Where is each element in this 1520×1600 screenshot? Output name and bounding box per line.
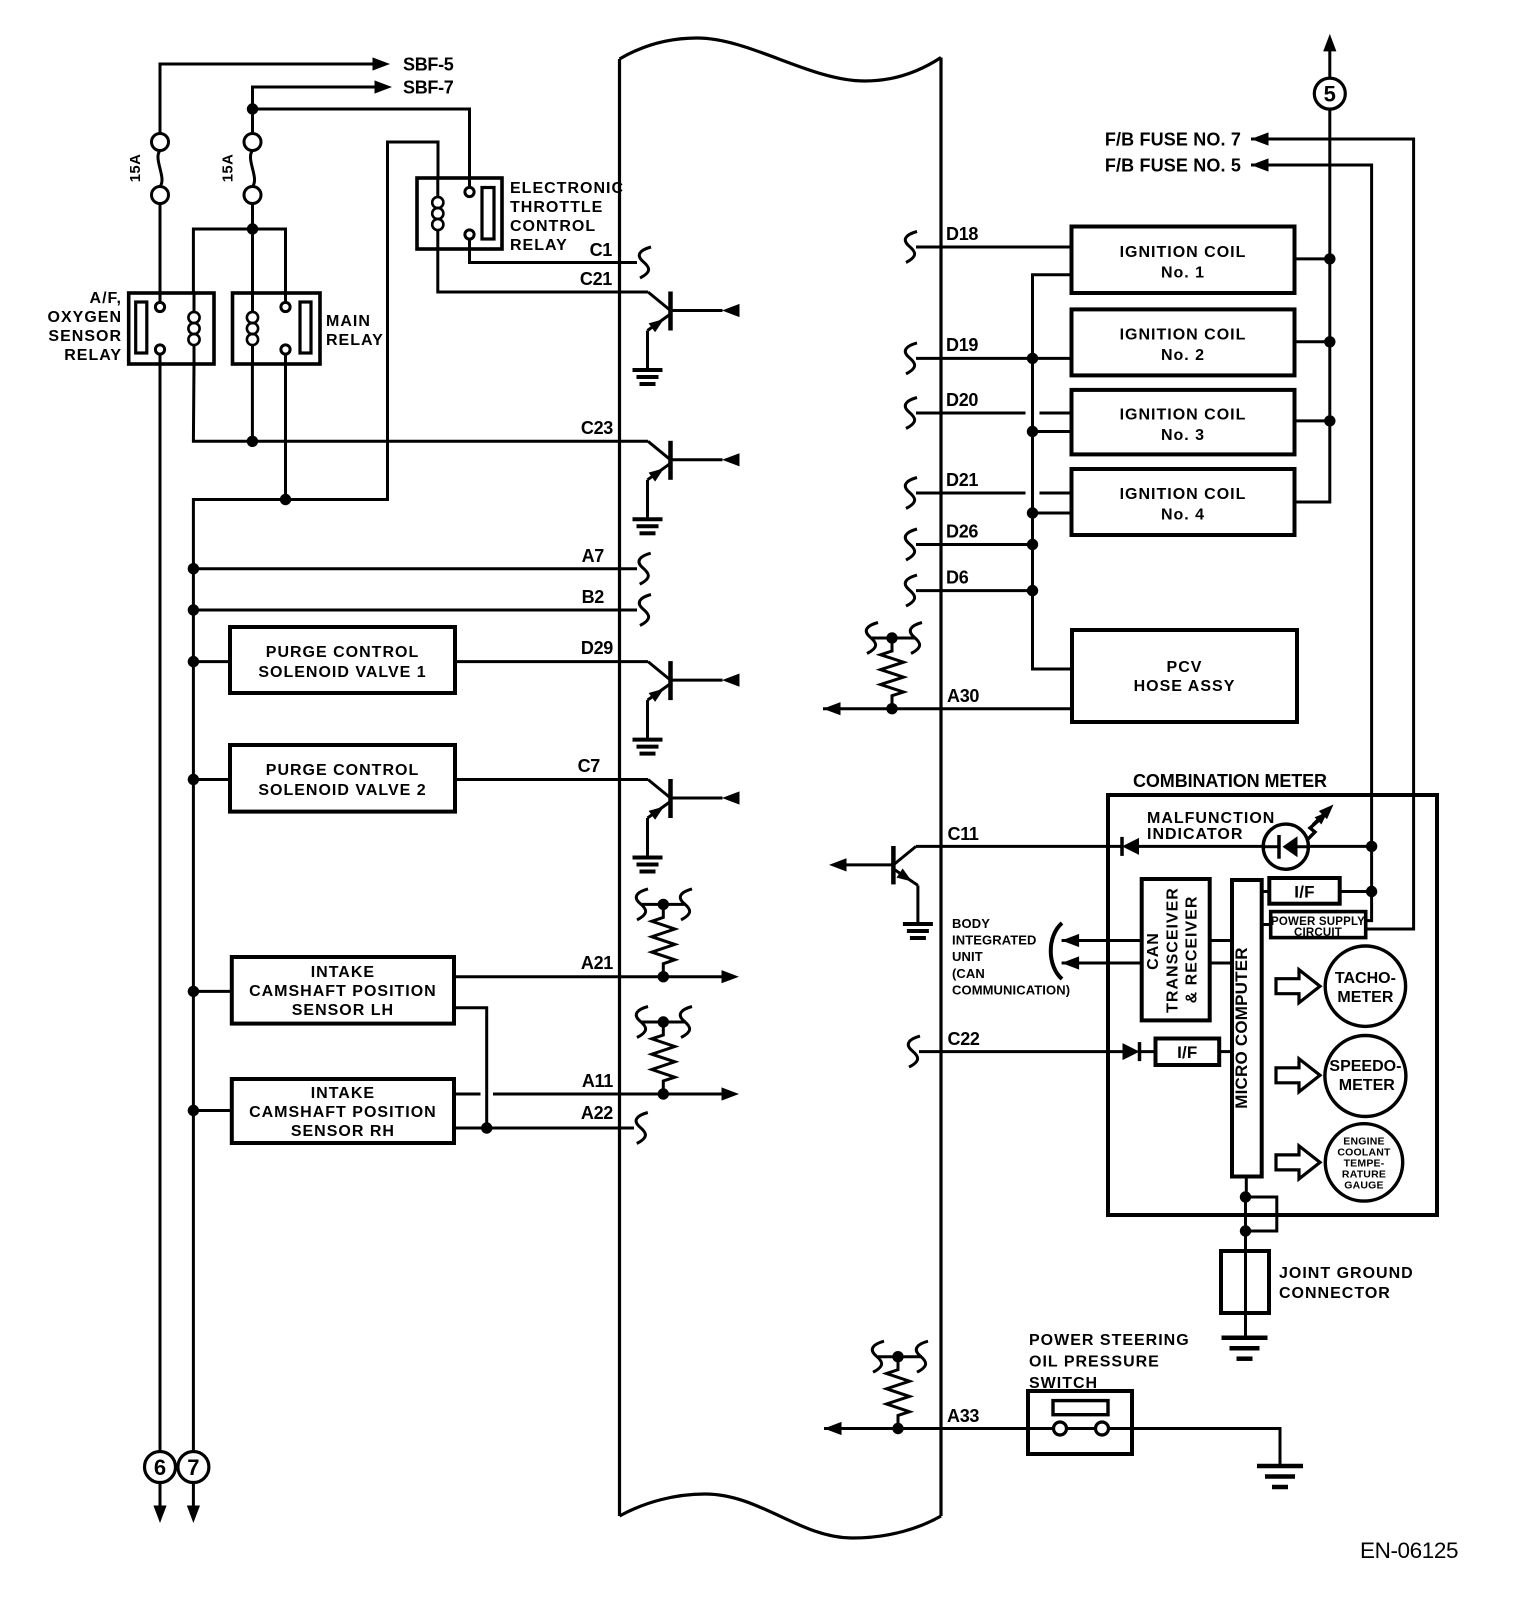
svg-text:THROTTLE: THROTTLE bbox=[510, 199, 603, 216]
hollow arrow to speedometer bbox=[1276, 1059, 1320, 1092]
squiggle R1 left bbox=[636, 889, 648, 920]
svg-text:PCV: PCV bbox=[1167, 659, 1203, 676]
wire R1 top link bbox=[642, 903, 686, 906]
label D19 bbox=[946, 335, 978, 355]
label ignition coil no.4 bbox=[1120, 486, 1247, 524]
svg-text:INTEGRATED: INTEGRATED bbox=[952, 933, 1037, 948]
wire micro to I/F upper bbox=[1262, 890, 1270, 893]
svg-text:C22: C22 bbox=[948, 1029, 980, 1049]
wire C21 bbox=[438, 249, 648, 292]
svg-text:INTAKE: INTAKE bbox=[311, 1085, 375, 1102]
svg-text:5: 5 bbox=[1324, 82, 1336, 107]
svg-text:C1: C1 bbox=[590, 240, 613, 260]
wire relay coil bus bbox=[193, 229, 285, 303]
label A33 bbox=[947, 1406, 979, 1426]
svg-text:IGNITION COIL: IGNITION COIL bbox=[1120, 407, 1247, 424]
wire C1 bbox=[470, 239, 638, 262]
squiggle D20 bbox=[905, 398, 917, 429]
wire CAN low bbox=[1062, 962, 1142, 965]
label D29 bbox=[581, 638, 613, 658]
box purge control solenoid valve 1 bbox=[230, 627, 455, 693]
squiggle D6 bbox=[905, 575, 917, 606]
circled connector 5 bbox=[1314, 78, 1345, 109]
box purge control solenoid valve 2 bbox=[230, 745, 455, 812]
svg-text:No. 4: No. 4 bbox=[1161, 507, 1205, 524]
wire D20 bbox=[916, 412, 1072, 415]
node D26 bus junction bbox=[1027, 539, 1038, 550]
wire A22 bbox=[454, 1127, 634, 1130]
svg-text:CAMSHAFT POSITION: CAMSHAFT POSITION bbox=[249, 1104, 437, 1121]
svg-text:INDICATOR: INDICATOR bbox=[1147, 826, 1243, 843]
box I/F lower bbox=[1156, 1039, 1220, 1066]
box ignition coil no.3 bbox=[1072, 390, 1295, 455]
contact bar K3 bbox=[482, 188, 494, 240]
label MAIN RELAY bbox=[326, 313, 384, 349]
label A30 bbox=[947, 686, 979, 706]
squiggle A22 bbox=[636, 1113, 648, 1144]
wire C11 bbox=[916, 845, 1263, 848]
wire coil4 bus feed bbox=[1033, 512, 1072, 515]
wire D6 bbox=[916, 589, 1033, 592]
svg-text:A11: A11 bbox=[582, 1071, 613, 1091]
svg-text:POWER STEERING: POWER STEERING bbox=[1029, 1332, 1190, 1349]
node relay coil junction bbox=[247, 223, 258, 234]
svg-text:B2: B2 bbox=[582, 587, 605, 607]
svg-text:RELAY: RELAY bbox=[64, 347, 122, 364]
svg-text:A/F,: A/F, bbox=[90, 290, 122, 307]
relay K2 main relay box bbox=[233, 293, 321, 364]
svg-text:I/F: I/F bbox=[1177, 1043, 1197, 1062]
wire K2 pin stubs bbox=[284, 293, 287, 364]
svg-text:TACHO-: TACHO- bbox=[1335, 970, 1396, 987]
node R3 top bbox=[886, 632, 897, 643]
arrow A30 left bbox=[823, 702, 841, 715]
box power steering oil pressure switch bbox=[1028, 1391, 1132, 1454]
svg-text:CIRCUIT: CIRCUIT bbox=[1294, 927, 1342, 939]
arrow to F/B fuse no.5 bbox=[1251, 158, 1269, 171]
svg-text:C23: C23 bbox=[581, 418, 613, 438]
svg-text:A21: A21 bbox=[581, 953, 613, 973]
label A22 bbox=[581, 1103, 613, 1123]
svg-text:UNIT: UNIT bbox=[952, 949, 983, 964]
node I/F supply junction bbox=[1366, 886, 1377, 897]
squiggle C1 bbox=[639, 247, 651, 278]
svg-text:D6: D6 bbox=[946, 568, 969, 588]
label 15A fuse F2 bbox=[220, 154, 237, 182]
circled connector 7 bbox=[178, 1452, 209, 1483]
ground joint ground connector bbox=[1222, 1338, 1268, 1359]
arrow to SBF-5 bbox=[373, 57, 391, 70]
label body integrated unit bbox=[952, 916, 1070, 997]
svg-text:COMMUNICATION): COMMUNICATION) bbox=[952, 982, 1070, 997]
wire D18 bbox=[916, 246, 1072, 249]
label C23 bbox=[581, 418, 613, 438]
transistor Q5 (C11) bbox=[829, 846, 933, 938]
svg-text:OXYGEN: OXYGEN bbox=[48, 309, 122, 326]
wire I/F upper to supply bbox=[1340, 890, 1372, 893]
svg-text:7: 7 bbox=[187, 1455, 199, 1480]
svg-text:IGNITION COIL: IGNITION COIL bbox=[1120, 486, 1247, 503]
gauge engine coolant temperature bbox=[1325, 1124, 1402, 1201]
wire A11 bbox=[454, 1093, 727, 1096]
squiggle R2 left bbox=[636, 1007, 648, 1038]
node camshaft RH junction bbox=[188, 1105, 199, 1116]
node camshaft LH junction bbox=[188, 986, 199, 997]
node LED supply junction bbox=[1366, 841, 1377, 852]
node coil2 output bbox=[1324, 336, 1335, 347]
hollow arrow to tachometer bbox=[1276, 970, 1320, 1003]
wire C22 bbox=[919, 1050, 1156, 1053]
label D6 bbox=[946, 568, 969, 588]
wire D29 bbox=[455, 660, 648, 663]
node A22 junction bbox=[481, 1122, 492, 1133]
label ignition coil no.1 bbox=[1120, 244, 1247, 282]
squiggle D21 bbox=[905, 478, 917, 509]
svg-text:F/B FUSE NO. 7: F/B FUSE NO. 7 bbox=[1105, 130, 1241, 150]
arrow CAN low bbox=[1062, 956, 1080, 969]
label electronic throttle control relay bbox=[510, 180, 624, 254]
squiggle D18 bbox=[905, 232, 917, 263]
wire to ETC relay contact bbox=[253, 109, 470, 188]
relay K1 A/F oxygen sensor relay box bbox=[129, 293, 214, 364]
resistor R3 (A30) bbox=[881, 638, 904, 709]
node C23 main coil junction bbox=[247, 436, 258, 447]
label ignition coil no.3 bbox=[1120, 407, 1247, 445]
hollow arrow to coolant gauge bbox=[1276, 1146, 1320, 1179]
squiggle D26 bbox=[905, 529, 917, 560]
svg-text:COMBINATION METER: COMBINATION METER bbox=[1133, 771, 1327, 791]
wire CAN to micro lower bbox=[1210, 962, 1232, 965]
svg-text:(CAN: (CAN bbox=[952, 966, 985, 981]
node R2 top bbox=[658, 1016, 669, 1027]
wire coil2 output bbox=[1295, 340, 1330, 343]
wire to purge valve 1 bbox=[193, 660, 230, 663]
wire switched power to bus and ETC coil bbox=[193, 142, 438, 1452]
label F/B FUSE NO. 7 bbox=[1105, 130, 1241, 150]
box ignition coil no.2 bbox=[1072, 309, 1295, 375]
wire to camshaft sensor LH bbox=[193, 990, 231, 993]
box CAN transceiver & receiver bbox=[1142, 879, 1210, 1020]
svg-text:SENSOR RH: SENSOR RH bbox=[291, 1123, 395, 1140]
label F/B FUSE NO. 5 bbox=[1105, 156, 1241, 176]
wire micro to power supply circuit bbox=[1262, 923, 1271, 926]
svg-text:C7: C7 bbox=[578, 756, 601, 776]
svg-text:CAN: CAN bbox=[1145, 932, 1162, 970]
label C21 bbox=[580, 269, 612, 289]
label joint ground connector bbox=[1279, 1265, 1414, 1302]
label PCV hose assy bbox=[1134, 659, 1236, 695]
wire K3 coil stubs bbox=[436, 178, 439, 249]
node R4 bottom bbox=[892, 1423, 903, 1434]
pin K3 contact top bbox=[465, 187, 474, 196]
svg-text:PURGE CONTROL: PURGE CONTROL bbox=[266, 644, 419, 661]
relay K3 electronic throttle control relay box bbox=[417, 178, 502, 249]
body integrated unit paren bbox=[1051, 923, 1062, 979]
label EN-06125 bbox=[1360, 1538, 1458, 1563]
wire K2 coil stubs bbox=[251, 293, 254, 364]
wire to camshaft sensor RH bbox=[193, 1109, 231, 1112]
svg-text:D18: D18 bbox=[946, 224, 978, 244]
transistor Q4 (C7) bbox=[633, 779, 740, 872]
svg-text:SPEEDO-: SPEEDO- bbox=[1329, 1058, 1401, 1075]
node meter ground upper bbox=[1240, 1191, 1251, 1202]
svg-text:RELAY: RELAY bbox=[510, 237, 568, 254]
svg-text:A30: A30 bbox=[947, 686, 979, 706]
wire C7 bbox=[455, 778, 648, 781]
svg-text:MICRO COMPUTER: MICRO COMPUTER bbox=[1232, 947, 1251, 1108]
wire coil1 output bbox=[1295, 257, 1330, 260]
resistor R1 (A21 pull-up) bbox=[652, 904, 675, 976]
wire coil3 output bbox=[1295, 419, 1330, 422]
box intake camshaft position sensor LH bbox=[232, 957, 454, 1024]
svg-text:SOLENOID VALVE 1: SOLENOID VALVE 1 bbox=[258, 664, 426, 681]
arrow A21 bbox=[722, 970, 740, 983]
svg-text:D19: D19 bbox=[946, 335, 978, 355]
wire coil3 bus feed bbox=[1033, 430, 1072, 433]
svg-text:RELAY: RELAY bbox=[326, 332, 384, 349]
gauge speedometer bbox=[1325, 1036, 1406, 1117]
svg-text:No. 2: No. 2 bbox=[1161, 347, 1205, 364]
svg-text:SBF-7: SBF-7 bbox=[403, 78, 454, 98]
fuse F1 15A bbox=[152, 134, 169, 204]
arrow A33 left bbox=[824, 1422, 842, 1435]
coil K1 bbox=[188, 312, 199, 345]
gauge tachometer bbox=[1325, 946, 1405, 1026]
wire connector 5 top bbox=[1328, 47, 1331, 78]
label D26 bbox=[946, 522, 978, 542]
wire A/F relay output to connector 6 bbox=[159, 354, 162, 1452]
circled connector 6 bbox=[145, 1452, 176, 1483]
wire D19 bbox=[916, 357, 1072, 360]
squiggle B2 bbox=[639, 595, 651, 626]
label A/F oxygen sensor relay bbox=[48, 290, 122, 364]
pin power steering switch right bbox=[1096, 1422, 1109, 1435]
label C1 bbox=[590, 240, 613, 260]
arrow connector 5 up bbox=[1323, 34, 1336, 52]
squiggle A7 bbox=[639, 553, 651, 584]
contact bar power steering switch bbox=[1053, 1401, 1108, 1415]
wire CAN to micro upper bbox=[1210, 939, 1232, 942]
node D19 bus junction bbox=[1027, 353, 1038, 364]
node R1 top bbox=[658, 899, 669, 910]
svg-text:SENSOR: SENSOR bbox=[48, 328, 122, 345]
pin K2 contact bottom bbox=[281, 345, 290, 354]
diode D3 (C11 meter input) bbox=[1122, 837, 1139, 856]
svg-text:No. 3: No. 3 bbox=[1161, 427, 1205, 444]
wire K1 pin stubs bbox=[159, 293, 162, 364]
svg-text:No. 1: No. 1 bbox=[1161, 265, 1205, 282]
svg-text:A22: A22 bbox=[581, 1103, 613, 1123]
wire meter ground down bbox=[1244, 1197, 1247, 1251]
squiggle R3 left bbox=[866, 623, 878, 654]
label B2 bbox=[582, 587, 605, 607]
wire camshaft LH to A22 bbox=[454, 1008, 487, 1128]
node A7 junction bbox=[188, 563, 199, 574]
svg-text:C21: C21 bbox=[580, 269, 612, 289]
svg-text:EN-06125: EN-06125 bbox=[1360, 1538, 1458, 1563]
coil K2 bbox=[247, 312, 258, 345]
wire C23 bbox=[193, 364, 648, 441]
pin K2 contact top bbox=[281, 302, 290, 311]
box ignition coil no.1 bbox=[1072, 227, 1295, 294]
label 15A fuse F1 bbox=[127, 154, 144, 182]
box ignition coil no.4 bbox=[1072, 469, 1295, 535]
wire F/B fuse no.7 bbox=[1251, 139, 1414, 929]
squiggle R1 right bbox=[680, 889, 692, 920]
squiggle R2 right bbox=[680, 1007, 692, 1038]
wire K3 pin stubs bbox=[468, 178, 471, 249]
svg-text:HOSE ASSY: HOSE ASSY bbox=[1134, 678, 1236, 695]
svg-text:D29: D29 bbox=[581, 638, 613, 658]
wire micro computer ground bbox=[1245, 1177, 1248, 1192]
wire B2 bbox=[193, 609, 637, 612]
wire connector 6 arrow bbox=[159, 1483, 162, 1509]
svg-text:D21: D21 bbox=[946, 470, 978, 490]
svg-text:SBF-5: SBF-5 bbox=[403, 55, 454, 75]
box power supply circuit bbox=[1271, 912, 1366, 938]
svg-text:D20: D20 bbox=[946, 390, 978, 410]
ECM band outline bbox=[620, 38, 942, 1538]
node coil3 bus junction bbox=[1027, 426, 1038, 437]
label purge control solenoid valve 2 bbox=[258, 762, 426, 799]
wire ignition supply bus bbox=[1295, 109, 1330, 502]
wire meter ground loop bbox=[1246, 1197, 1277, 1231]
node R3 bottom bbox=[886, 703, 897, 714]
label I/F upper bbox=[1294, 883, 1314, 902]
label SBF-7 bbox=[403, 78, 454, 98]
label power supply circuit bbox=[1271, 916, 1365, 939]
label CAN transceiver & receiver bbox=[1145, 887, 1201, 1013]
svg-text:6: 6 bbox=[154, 1455, 166, 1480]
box combination meter bbox=[1108, 795, 1437, 1215]
arrow CAN high bbox=[1062, 934, 1080, 947]
svg-text:A7: A7 bbox=[582, 546, 605, 566]
arrow to F/B fuse no.7 bbox=[1251, 132, 1269, 145]
node coil1 output bbox=[1324, 253, 1335, 264]
svg-text:I/F: I/F bbox=[1294, 883, 1314, 902]
svg-text:A33: A33 bbox=[947, 1406, 979, 1426]
svg-text:OIL PRESSURE: OIL PRESSURE bbox=[1029, 1354, 1160, 1371]
svg-text:15A: 15A bbox=[127, 154, 144, 182]
squiggle R4 right bbox=[916, 1341, 928, 1372]
transistor Q3 (D29) bbox=[633, 661, 740, 754]
svg-text:F/B FUSE NO. 5: F/B FUSE NO. 5 bbox=[1105, 156, 1241, 176]
wire A33 bbox=[824, 1429, 1280, 1466]
pin power steering switch left bbox=[1054, 1422, 1067, 1435]
label A21 bbox=[581, 953, 613, 973]
squiggle D19 bbox=[905, 343, 917, 374]
label D18 bbox=[946, 224, 978, 244]
label C7 bbox=[578, 756, 601, 776]
node R2 bottom bbox=[658, 1088, 669, 1099]
arrow to SBF-7 bbox=[375, 80, 393, 93]
transistor Q2 (C23) bbox=[633, 441, 740, 534]
node B2 junction bbox=[188, 604, 199, 615]
svg-text:15A: 15A bbox=[220, 154, 237, 182]
svg-text:METER: METER bbox=[1339, 1077, 1395, 1094]
box intake camshaft position sensor RH bbox=[232, 1079, 454, 1143]
svg-text:MALFUNCTION: MALFUNCTION bbox=[1147, 810, 1275, 827]
svg-text:C11: C11 bbox=[948, 824, 979, 844]
svg-text:SENSOR LH: SENSOR LH bbox=[292, 1002, 394, 1019]
svg-text:INTAKE: INTAKE bbox=[311, 964, 375, 981]
svg-text:ELECTRONIC: ELECTRONIC bbox=[510, 180, 624, 197]
svg-text:GAUGE: GAUGE bbox=[1344, 1180, 1384, 1192]
node coil4 bus junction bbox=[1027, 507, 1038, 518]
svg-text:JOINT GROUND: JOINT GROUND bbox=[1279, 1265, 1414, 1282]
wire joint ground through bbox=[1244, 1251, 1247, 1338]
wire R2 top link bbox=[642, 1021, 686, 1024]
wire I/F lower to micro bbox=[1219, 1050, 1232, 1053]
svg-text:TRANSCEIVER: TRANSCEIVER bbox=[1165, 887, 1182, 1013]
fuse F2 15A bbox=[244, 134, 261, 204]
resistor R2 (A11 pull-up) bbox=[652, 1022, 675, 1094]
resistor R4 (A33) bbox=[887, 1357, 910, 1429]
node purge valve 2 junction bbox=[188, 774, 199, 785]
box joint ground connector bbox=[1221, 1251, 1269, 1313]
label ignition coil no.2 bbox=[1120, 327, 1247, 365]
svg-text:METER: METER bbox=[1337, 989, 1393, 1006]
wire A30 bbox=[823, 707, 1072, 710]
label malfunction indicator bbox=[1147, 810, 1275, 843]
label purge control solenoid valve 1 bbox=[258, 644, 426, 681]
contact bar K2 bbox=[300, 302, 311, 353]
svg-text:D26: D26 bbox=[946, 522, 978, 542]
node main relay output junction bbox=[280, 494, 291, 505]
label intake camshaft position sensor RH bbox=[249, 1085, 437, 1140]
box I/F upper bbox=[1269, 878, 1339, 904]
wire CAN high bbox=[1062, 939, 1142, 942]
svg-text:SOLENOID VALVE 2: SOLENOID VALVE 2 bbox=[258, 782, 426, 799]
transistor Q1 (C21) bbox=[633, 292, 740, 385]
svg-text:MAIN: MAIN bbox=[326, 313, 371, 330]
svg-text:PURGE CONTROL: PURGE CONTROL bbox=[266, 762, 419, 779]
svg-text:CONTROL: CONTROL bbox=[510, 218, 596, 235]
coil K3 bbox=[432, 197, 443, 230]
svg-text:BODY: BODY bbox=[952, 916, 990, 931]
label I/F lower bbox=[1177, 1043, 1197, 1062]
pin K1 contact top bbox=[155, 302, 164, 311]
wire K1 coil stubs bbox=[193, 293, 196, 364]
node fuse2/ETC junction bbox=[247, 103, 258, 114]
wire D26 bbox=[916, 543, 1033, 546]
label intake camshaft position sensor LH bbox=[249, 964, 437, 1019]
wire main relay output bbox=[284, 354, 287, 500]
pin K1 contact bottom bbox=[155, 345, 164, 354]
wire D21 bbox=[916, 492, 1072, 495]
label SBF-5 bbox=[403, 55, 454, 75]
wire SBF-5 feed bbox=[160, 64, 378, 303]
svg-text:IGNITION COIL: IGNITION COIL bbox=[1120, 327, 1247, 344]
arrow connector 7 bbox=[187, 1506, 200, 1524]
svg-text:CAMSHAFT POSITION: CAMSHAFT POSITION bbox=[249, 983, 437, 1000]
box micro computer bbox=[1232, 880, 1262, 1177]
wire connector 7 arrow bbox=[192, 1483, 195, 1509]
svg-text:IGNITION COIL: IGNITION COIL bbox=[1120, 244, 1247, 261]
node purge valve 1 junction bbox=[188, 656, 199, 667]
svg-text:CONNECTOR: CONNECTOR bbox=[1279, 1285, 1391, 1302]
wire to purge valve 2 bbox=[193, 778, 230, 781]
label COMBINATION METER bbox=[1133, 771, 1327, 791]
wire A21 bbox=[454, 975, 727, 978]
squiggle R3 right bbox=[910, 623, 922, 654]
squiggle C22 bbox=[908, 1036, 920, 1067]
LED emission arrows bbox=[1308, 800, 1338, 839]
arrow A11 bbox=[722, 1087, 740, 1100]
node meter ground lower bbox=[1240, 1225, 1251, 1236]
wire A7 bbox=[193, 567, 637, 570]
wire R4 top link bbox=[878, 1355, 922, 1358]
